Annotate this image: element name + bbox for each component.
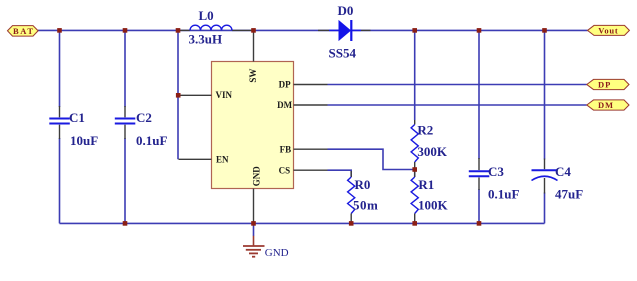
wire C4 column vertical upper <box>544 30 546 159</box>
svg-text:L0: L0 <box>199 8 214 23</box>
junction dot top C2 <box>123 28 128 33</box>
wire C1 column vertical upper <box>59 30 61 107</box>
capacitor C3 <box>469 158 520 202</box>
pin GND (bottom) <box>252 166 262 223</box>
junction dot bus GND <box>251 221 256 226</box>
wire C1 column vertical lower <box>59 138 61 223</box>
flag BAT <box>8 26 39 36</box>
flag DM <box>587 100 629 110</box>
wire C2 column vertical lower <box>124 138 126 223</box>
svg-text:EN: EN <box>216 154 229 164</box>
svg-text:C4: C4 <box>555 164 571 179</box>
junction dot top C3 <box>477 28 482 33</box>
svg-text:BAT: BAT <box>13 26 35 36</box>
svg-text:GND: GND <box>252 166 262 187</box>
junction dot FB divider <box>412 167 417 172</box>
pin SW (top) <box>248 31 258 83</box>
svg-text:FB: FB <box>280 144 292 154</box>
IC U1 body <box>212 62 294 189</box>
svg-text:C1: C1 <box>69 110 85 125</box>
wire DM net <box>328 104 587 106</box>
pin CS <box>279 165 328 175</box>
wire CS to R0 <box>328 170 352 177</box>
ground symbol GND <box>243 236 289 259</box>
wire C4 column vertical lower <box>544 193 546 224</box>
junction dot top R2 <box>412 28 417 33</box>
svg-text:47uF: 47uF <box>555 187 583 202</box>
svg-text:R0: R0 <box>355 177 371 192</box>
junction dot top C1 <box>57 28 62 33</box>
junction dot top L0 left <box>176 28 181 33</box>
wire R1 top stub <box>414 170 416 178</box>
pin DM <box>277 100 327 110</box>
svg-text:SW: SW <box>248 69 258 83</box>
svg-text:DM: DM <box>598 100 614 110</box>
svg-text:DP: DP <box>279 80 291 90</box>
pin DP <box>279 80 328 90</box>
svg-text:300K: 300K <box>417 144 448 159</box>
wire FB net <box>328 149 415 169</box>
resistor R0 <box>348 171 379 223</box>
svg-text:C2: C2 <box>136 110 152 125</box>
svg-text:GND: GND <box>265 247 289 259</box>
svg-text:10uF: 10uF <box>70 133 98 148</box>
pin EN <box>179 154 230 164</box>
pin VIN <box>179 90 233 100</box>
junction dot top SW <box>251 28 256 33</box>
inductor L0 <box>179 8 254 46</box>
junction dot bus R1 <box>412 221 417 226</box>
svg-text:Vout: Vout <box>598 25 618 35</box>
junction dot bus R0 <box>349 221 354 226</box>
junction dot top C4 <box>542 28 547 33</box>
resistor R2 <box>411 120 448 170</box>
pin FB <box>280 144 328 154</box>
svg-text:DP: DP <box>598 79 611 89</box>
junction dot bus C3 <box>477 221 482 226</box>
wire C3 column vertical lower <box>478 189 480 223</box>
wire C2 column vertical upper <box>124 30 126 107</box>
svg-text:R2: R2 <box>417 123 433 138</box>
wire GND stub <box>253 223 255 236</box>
svg-text:VIN: VIN <box>216 90 233 100</box>
svg-text:SS54: SS54 <box>329 46 357 61</box>
svg-text:D0: D0 <box>338 3 354 18</box>
wire R2 column vertical <box>414 30 416 120</box>
wire DP net <box>328 84 587 86</box>
junction dot VIN <box>176 93 181 98</box>
svg-text:DM: DM <box>277 100 292 110</box>
resistor R1 <box>411 170 448 223</box>
wire top bus BAT to Vout <box>38 29 588 31</box>
svg-text:0.1uF: 0.1uF <box>488 187 519 202</box>
flag Vout <box>588 25 630 35</box>
wire bottom ground bus <box>60 222 545 224</box>
svg-text:CS: CS <box>279 165 291 175</box>
capacitor C2 <box>115 106 168 148</box>
svg-text:R1: R1 <box>418 177 434 192</box>
svg-text:0.1uF: 0.1uF <box>136 133 167 148</box>
flag DP <box>587 79 629 89</box>
svg-text:C3: C3 <box>488 164 504 179</box>
svg-text:50m: 50m <box>353 198 378 213</box>
svg-text:100K: 100K <box>418 198 449 213</box>
capacitor C1 <box>49 106 98 148</box>
svg-text:3.3uH: 3.3uH <box>189 32 223 47</box>
junction dot bus C2 <box>123 221 128 226</box>
wire VIN/EN column vertical <box>177 30 179 159</box>
diode D0 SS54 <box>318 3 371 61</box>
capacitor C4 (polarized) <box>532 159 584 202</box>
wire C3 column vertical upper <box>478 30 480 159</box>
